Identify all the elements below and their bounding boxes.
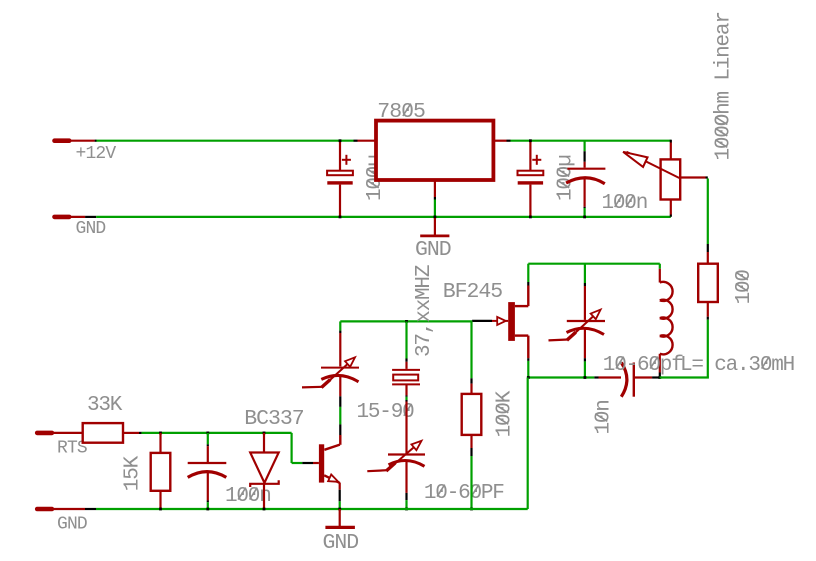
svg-text:100: 100 — [733, 270, 756, 305]
svg-text:33K: 33K — [87, 394, 123, 417]
svg-text:10-60PF: 10-60PF — [424, 482, 504, 505]
svg-text:7805: 7805 — [377, 100, 425, 124]
svg-text:L= ca.30mH: L= ca.30mH — [680, 354, 794, 377]
svg-text:100K: 100K — [494, 390, 517, 437]
svg-text:GND: GND — [323, 531, 359, 555]
svg-text:BF245: BF245 — [443, 280, 503, 304]
svg-text:100µ: 100µ — [554, 155, 577, 201]
svg-text:37,xxMHZ: 37,xxMHZ — [413, 265, 436, 357]
svg-text:+12V: +12V — [76, 144, 117, 164]
svg-text:BC337: BC337 — [244, 407, 304, 431]
svg-text:10n: 10n — [593, 400, 616, 434]
svg-text:GND: GND — [57, 515, 87, 535]
svg-text:100n: 100n — [602, 192, 648, 215]
svg-text:10-60pf: 10-60pf — [603, 354, 683, 377]
svg-text:15K: 15K — [122, 455, 145, 491]
svg-text:GND: GND — [76, 219, 106, 239]
svg-text:100Ohm Linear: 100Ohm Linear — [713, 12, 736, 160]
svg-text:GND: GND — [415, 238, 451, 262]
